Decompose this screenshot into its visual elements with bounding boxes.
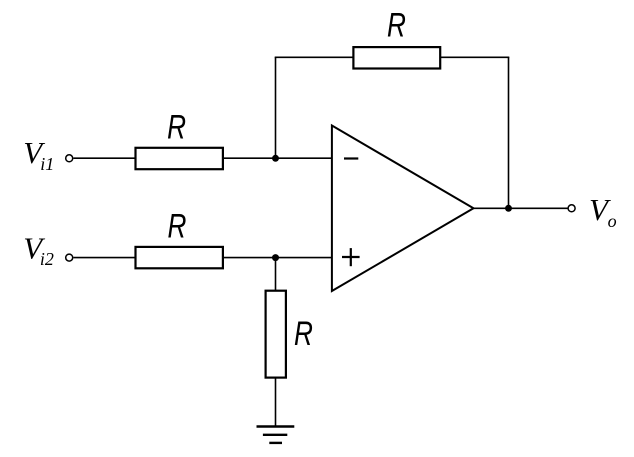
svg-text:R: R [167, 109, 186, 146]
node: non-inverting input junction [272, 254, 279, 261]
svg-text:i2: i2 [40, 249, 54, 269]
ground [257, 427, 295, 443]
wire: non-inverting node down to grounding resistor [275, 258, 277, 292]
wire: Vi1 terminal to R input resistor [73, 157, 136, 159]
node: inverting input junction [272, 155, 279, 162]
resistor R (feedback) [353, 8, 440, 69]
wire: feedback branch down to output node [508, 57, 510, 208]
svg-text:i1: i1 [40, 154, 54, 174]
svg-text:R: R [387, 8, 406, 45]
wire: grounding resistor to ground [275, 377, 277, 427]
wire: Vi2 terminal to R input resistor [73, 257, 136, 259]
resistor R (Vi2 input) [136, 208, 223, 268]
terminal: Vi1 input [66, 155, 73, 162]
node: output junction [505, 205, 512, 212]
svg-text:o: o [608, 211, 617, 231]
terminal: Vo output [568, 205, 575, 212]
resistor R (Vi1 input) [136, 109, 223, 169]
wire: R output to non-inverting node [223, 257, 331, 259]
svg-text:R: R [167, 208, 186, 245]
label Vi1 [23, 135, 54, 174]
terminal: Vi2 input [66, 254, 73, 261]
svg-text:R: R [294, 316, 313, 353]
wire: feedback branch left horizontal [275, 56, 354, 58]
wire: R output to inverting node [223, 157, 331, 159]
wire: inverting node up to feedback branch [275, 57, 277, 158]
op-amp U1 [332, 126, 474, 292]
wire: feedback branch right horizontal [441, 56, 510, 58]
label Vi2 [23, 230, 54, 269]
resistor R (non-inverting input to ground) [266, 291, 313, 378]
wire: op-amp output to Vo terminal [473, 207, 568, 209]
label Vo [589, 192, 617, 231]
